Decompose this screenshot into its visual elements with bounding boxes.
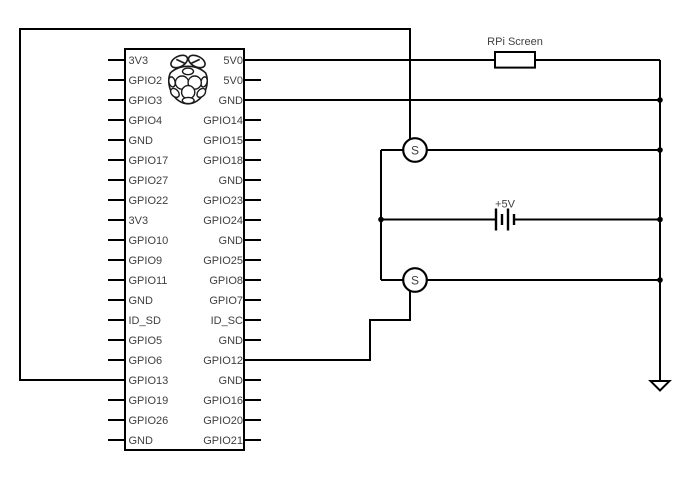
svg-text:GPIO8: GPIO8 <box>209 275 243 287</box>
svg-text:5V0: 5V0 <box>223 55 243 67</box>
svg-text:GPIO22: GPIO22 <box>129 195 169 207</box>
svg-text:GPIO21: GPIO21 <box>203 435 243 447</box>
svg-text:GPIO7: GPIO7 <box>209 295 243 307</box>
svg-text:GPIO24: GPIO24 <box>203 215 243 227</box>
svg-text:GPIO27: GPIO27 <box>129 175 169 187</box>
svg-text:GND: GND <box>129 295 154 307</box>
svg-text:GPIO5: GPIO5 <box>129 335 163 347</box>
svg-text:GPIO12: GPIO12 <box>203 355 243 367</box>
svg-text:GPIO19: GPIO19 <box>129 395 169 407</box>
svg-text:GND: GND <box>219 375 244 387</box>
svg-text:GPIO16: GPIO16 <box>203 395 243 407</box>
svg-text:S: S <box>411 143 419 157</box>
svg-text:3V3: 3V3 <box>129 215 149 227</box>
svg-text:GPIO11: GPIO11 <box>129 275 168 287</box>
svg-text:GPIO20: GPIO20 <box>203 415 243 427</box>
svg-text:GND: GND <box>219 175 244 187</box>
svg-text:GPIO9: GPIO9 <box>129 255 163 267</box>
svg-text:GND: GND <box>129 135 154 147</box>
svg-text:GPIO18: GPIO18 <box>203 155 243 167</box>
svg-text:GPIO2: GPIO2 <box>129 75 163 87</box>
svg-text:ID_SC: ID_SC <box>211 315 243 327</box>
svg-text:GPIO3: GPIO3 <box>129 95 163 107</box>
svg-text:+5V: +5V <box>495 199 516 211</box>
svg-text:GPIO15: GPIO15 <box>203 135 243 147</box>
svg-text:GPIO10: GPIO10 <box>129 235 169 247</box>
svg-text:3V3: 3V3 <box>129 55 149 67</box>
svg-text:GPIO14: GPIO14 <box>203 115 243 127</box>
svg-text:GPIO26: GPIO26 <box>129 415 169 427</box>
svg-text:GPIO13: GPIO13 <box>129 375 169 387</box>
svg-text:GND: GND <box>129 435 154 447</box>
svg-text:GND: GND <box>219 235 244 247</box>
svg-text:5V0: 5V0 <box>223 75 243 87</box>
svg-text:S: S <box>411 273 419 287</box>
svg-text:GPIO4: GPIO4 <box>129 115 163 127</box>
svg-text:GPIO17: GPIO17 <box>129 155 169 167</box>
svg-text:ID_SD: ID_SD <box>129 315 161 327</box>
svg-text:GND: GND <box>219 335 244 347</box>
svg-text:GND: GND <box>219 95 244 107</box>
svg-text:GPIO23: GPIO23 <box>203 195 243 207</box>
svg-text:GPIO6: GPIO6 <box>129 355 163 367</box>
svg-text:RPi Screen: RPi Screen <box>487 36 543 48</box>
svg-text:GPIO25: GPIO25 <box>203 255 243 267</box>
